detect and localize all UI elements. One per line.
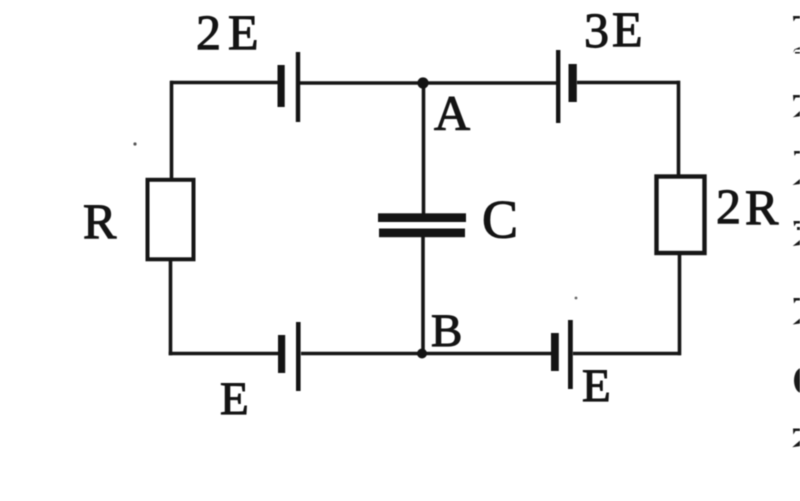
cut-off text fragment right edge row 7 (794, 221, 800, 230)
node A junction dot (417, 77, 428, 88)
svg-text:A: A (434, 85, 470, 141)
battery E bottom-right thin long plate (568, 320, 573, 389)
cut-off text fragment right edge row 1 (793, 16, 800, 22)
cut-off text fragment right edge row 2 (793, 47, 800, 54)
svg-text:E: E (220, 373, 249, 425)
cut-off text fragment right edge row 9 (794, 298, 800, 304)
svg-text:C: C (482, 190, 518, 250)
cut-off text fragment right edge row 11 (large round blob) (794, 368, 800, 393)
wire middle vertical upper (node A to capacitor) (422, 83, 426, 215)
svg-text:E: E (582, 360, 611, 412)
cut-off text fragment right edge row 3 (793, 95, 800, 102)
battery E bottom-left thick short plate (278, 335, 285, 373)
svg-text:R: R (745, 179, 779, 235)
cut-off text fragment right edge row 4 (793, 111, 800, 117)
svg-text:B: B (431, 305, 462, 357)
stray speck left (133, 142, 136, 145)
cut-off text fragment right edge row 13 (792, 441, 800, 448)
svg-text:2: 2 (716, 178, 741, 234)
stray speck right (575, 297, 578, 300)
battery 3E thick short plate (569, 64, 577, 102)
capacitor C top plate (378, 213, 466, 222)
wire top-left horizontal (171, 81, 279, 85)
wire right vertical upper (677, 81, 681, 176)
svg-text:E: E (228, 4, 259, 60)
wire bottom-left horizontal (169, 352, 278, 356)
wire right vertical lower (678, 254, 682, 355)
svg-text:2: 2 (196, 4, 221, 60)
battery 3E thin long plate (556, 50, 560, 123)
svg-text:3: 3 (584, 2, 609, 58)
cut-off text fragment right edge row 6 (793, 179, 800, 185)
battery 2E thin long plate (296, 52, 300, 122)
battery E bottom-left thin long plate (296, 322, 301, 391)
cut-off text fragment right edge row 10 (793, 319, 800, 325)
resistor R body (148, 180, 194, 259)
wire top-middle horizontal (battery 2E to node A to battery 3E) (300, 81, 556, 85)
wire top-right horizontal (577, 81, 680, 85)
node B junction dot (417, 349, 427, 359)
wire left vertical upper (170, 81, 174, 179)
battery 2E thick short plate (278, 65, 285, 107)
cut-off text fragment right edge row 8 (793, 240, 800, 246)
wire bottom-right horizontal (573, 352, 681, 356)
cut-off text fragment right edge row 12 (793, 429, 800, 435)
wire middle vertical lower (capacitor to node B) (421, 237, 425, 354)
resistor 2R body (657, 177, 705, 254)
capacitor C bottom plate (379, 229, 465, 238)
svg-text:R: R (83, 193, 117, 249)
battery E bottom-right thick short plate (551, 333, 559, 371)
wire bottom-middle horizontal (battery E to node B to battery E) (301, 352, 551, 356)
cut-off text fragment right edge row 5 (794, 151, 800, 156)
wire left vertical lower (169, 260, 173, 355)
svg-text:E: E (612, 1, 643, 57)
